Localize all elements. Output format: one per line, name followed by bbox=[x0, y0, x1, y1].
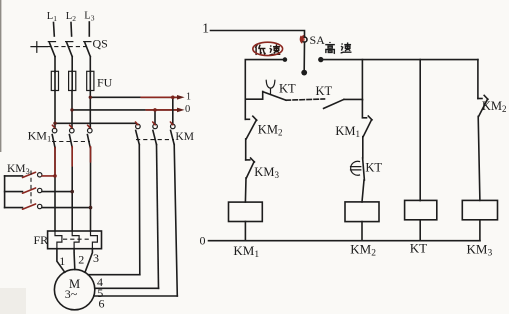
contact KT1 fixed tick bbox=[262, 92, 264, 100]
contactor KM3 left rail bbox=[4, 176, 6, 208]
contactor KM pole 2 bbox=[153, 124, 158, 129]
wire bottom rail bbox=[209, 240, 481, 242]
svg-text:KT: KT bbox=[279, 81, 296, 95]
junction dot stub2 bbox=[153, 108, 157, 112]
svg-text:1: 1 bbox=[186, 91, 191, 102]
LEFT DIAGRAM bbox=[5, 10, 194, 310]
contactor KM3 row 3 connector bbox=[42, 207, 91, 209]
contactor KM3 row 3 stub bbox=[5, 207, 23, 209]
wire low speed branch to left rail bbox=[245, 60, 285, 120]
wire KM pole3 down bbox=[174, 145, 177, 296]
wire FR to motor 1 bbox=[57, 249, 65, 273]
wire row to middle rail bbox=[344, 98, 363, 100]
wire phase C QS to fuse bbox=[89, 57, 91, 72]
contactor KM3 row 1 circle bbox=[38, 173, 42, 177]
svg-text:0: 0 bbox=[200, 234, 206, 248]
contactor KM3 row 3 blade bbox=[23, 204, 36, 209]
svg-text:1: 1 bbox=[59, 254, 65, 268]
wire KM pole1 down bbox=[138, 145, 141, 275]
contactor KM3 row 2 blade bbox=[23, 188, 36, 193]
contactor KM3 row 1 connector bbox=[42, 175, 55, 177]
relay FR heater 3 bbox=[91, 231, 98, 249]
contact KT1 row wire bbox=[245, 98, 262, 100]
wire left rail to coil bbox=[244, 178, 247, 202]
wire stub to KM pole3 bbox=[172, 97, 174, 123]
wire phase B KM1 to FR bbox=[71, 148, 73, 232]
relay FR heater 2 bbox=[72, 231, 79, 249]
contact KM1 blade bbox=[363, 120, 371, 137]
wire right rail to coil bbox=[478, 116, 480, 200]
svg-text:FR: FR bbox=[34, 233, 49, 247]
fuse FU1 bbox=[54, 71, 56, 91]
svg-text:KT: KT bbox=[365, 160, 382, 174]
contact KT3 blade bbox=[363, 158, 365, 180]
wire high speed rail bbox=[321, 59, 478, 61]
wire phase B fuse to KM1 bbox=[71, 91, 73, 129]
wire phase A QS to fuse bbox=[54, 57, 56, 72]
switch SA pivot circle bbox=[302, 37, 307, 42]
label high speed (gao su) bbox=[325, 42, 351, 53]
svg-text:KT: KT bbox=[316, 84, 333, 98]
svg-text:0: 0 bbox=[185, 104, 190, 115]
switch QS pole 2 blade bbox=[67, 43, 72, 57]
contactor KM3 row 3 circle bbox=[38, 204, 42, 208]
contact KT1 delay symbol bbox=[266, 80, 275, 94]
red tick KM1 pole3 bbox=[88, 125, 90, 128]
junction dot row3 bbox=[89, 206, 93, 210]
junction dot row1 bbox=[53, 174, 57, 178]
contact KM3 jog bbox=[246, 159, 250, 161]
svg-text:2: 2 bbox=[78, 252, 84, 266]
wire L3 stub bbox=[88, 22, 90, 36]
coil KM1 box bbox=[229, 202, 263, 221]
wire tap from L1 to KM pole1 bbox=[55, 122, 136, 124]
contact KM2 jog bbox=[245, 118, 249, 120]
wire left rail mid bbox=[245, 139, 247, 160]
red circle around low speed bbox=[253, 42, 283, 55]
switch QS pole 2 tick bbox=[66, 41, 73, 43]
contact KM2 blade bbox=[246, 120, 256, 139]
contact dot low speed bbox=[283, 57, 288, 62]
contact KT3 delay arc bbox=[351, 161, 360, 175]
contact KM2b jog bbox=[478, 98, 482, 100]
wire phase B QS to fuse bbox=[71, 57, 73, 72]
wire control tap 1 from L3 bbox=[90, 96, 177, 98]
wire FR to motor 2 bbox=[73, 249, 76, 270]
junction dot row2 bbox=[70, 190, 74, 194]
wire L1 stub bbox=[53, 23, 56, 37]
switch QS pole 3 tick bbox=[84, 41, 91, 43]
red tick KM1 pole2 bbox=[70, 125, 72, 128]
contactor KM3 row 1 blade bbox=[23, 172, 36, 177]
contact KM2b blade bbox=[479, 99, 488, 116]
contact KM3 blade bbox=[246, 162, 254, 178]
wire drop to middle branch bbox=[361, 60, 363, 100]
svg-text:QS: QS bbox=[93, 37, 108, 51]
svg-text:1: 1 bbox=[202, 20, 209, 35]
wire drop to KT coil branch bbox=[419, 60, 421, 201]
contactor KM1 pole 2 bbox=[70, 128, 75, 133]
wire control tap 0 from L2 bbox=[72, 109, 177, 111]
svg-text:FU: FU bbox=[97, 76, 113, 90]
contactor KM3 row 2 connector bbox=[42, 191, 72, 193]
junction dot L1 tap bbox=[53, 122, 56, 125]
svg-text:3~: 3~ bbox=[65, 287, 78, 301]
contactor KM3 row 2 circle bbox=[38, 188, 42, 192]
switch QS pole 3 blade bbox=[85, 43, 90, 57]
red overdraw phase C bbox=[90, 147, 92, 163]
junction dot L2 tap bbox=[70, 108, 73, 111]
coil KM2 box bbox=[345, 202, 379, 222]
wire phase C KM1 to FR bbox=[90, 148, 92, 232]
wire stub to KM pole2 bbox=[154, 110, 156, 124]
contactor KM pole 3 bbox=[171, 124, 176, 129]
red overdraw phase B bbox=[71, 147, 73, 167]
wire coil KM3 to bottom rail bbox=[479, 220, 481, 241]
wire middle rail bbox=[362, 137, 364, 158]
contactor KM1 pole 3 bbox=[88, 128, 93, 133]
RIGHT DIAGRAM bbox=[200, 20, 507, 259]
svg-text:KT: KT bbox=[410, 241, 427, 256]
motor M circle bbox=[54, 269, 94, 309]
wire phase C fuse to KM1 bbox=[89, 91, 91, 129]
switch QS linkage bbox=[47, 46, 86, 48]
contactor KM pole 1 bbox=[136, 124, 141, 129]
wire phase A fuse to KM1 bbox=[54, 91, 56, 129]
junction dot stub3 bbox=[171, 96, 175, 100]
svg-text:6: 6 bbox=[99, 297, 105, 311]
switch QS pole 1 blade bbox=[50, 43, 56, 57]
wire phase A KM1 to FR bbox=[54, 148, 56, 232]
contact KM1 tick bbox=[368, 116, 372, 120]
wire top rail bbox=[211, 31, 305, 38]
red tick KM pole1 bbox=[136, 122, 139, 125]
red tick KM1 pole1 bbox=[52, 125, 54, 128]
contact KM1 jog bbox=[362, 100, 366, 118]
wire motor terminal 4 bbox=[88, 274, 140, 276]
wire FR to motor 3 bbox=[85, 249, 92, 273]
contact KT2 blade bbox=[324, 99, 344, 108]
wire motor terminal 6 bbox=[94, 295, 178, 297]
contact dot high speed bbox=[318, 57, 323, 62]
coil KM3 box bbox=[462, 200, 497, 219]
svg-text:KM: KM bbox=[175, 131, 194, 143]
relay FR box bbox=[48, 231, 102, 249]
wire L2 stub bbox=[70, 23, 73, 37]
red overdraw phase A bbox=[54, 148, 56, 177]
svg-text:3: 3 bbox=[93, 251, 99, 265]
red mark at SA bbox=[300, 36, 303, 43]
wire coil KM2 to bottom rail bbox=[361, 222, 363, 241]
coil KT box bbox=[405, 200, 437, 219]
contactor KM1 linkage bbox=[52, 141, 90, 143]
fuse FU3 bbox=[89, 71, 91, 91]
red tick KM pole2 bbox=[153, 122, 156, 125]
switch SA lever dot bbox=[301, 70, 307, 76]
wire middle rail to coil bbox=[362, 180, 364, 202]
switch QS pole 1 tick bbox=[48, 41, 55, 43]
scan edge shadow bbox=[0, 0, 1, 152]
label low speed (di su) bbox=[255, 44, 280, 55]
fuse FU2 bbox=[71, 71, 73, 91]
switch QS handle bbox=[31, 46, 47, 48]
wire coil KM1 to bottom rail bbox=[244, 222, 246, 241]
wire drop to KM3 coil branch bbox=[477, 60, 479, 99]
contact KM3 tick bbox=[251, 158, 255, 162]
wire KM pole2 down bbox=[157, 145, 159, 289]
contactor KM1 pole 1 bbox=[52, 128, 57, 133]
relay FR heater 1 bbox=[55, 231, 62, 249]
wire coil KT to bottom rail bbox=[419, 220, 421, 241]
contactor KM3 row 1 stub bbox=[5, 175, 23, 177]
arrow to node 0 bbox=[177, 108, 185, 113]
relay FR linkage bbox=[63, 238, 89, 240]
contact KM2b tick bbox=[484, 95, 488, 99]
contact KT1 blade bbox=[263, 92, 286, 100]
switch SA lever bbox=[303, 42, 305, 70]
wire row middle dashed bbox=[286, 99, 325, 100]
red tick KM pole3 bbox=[170, 122, 173, 125]
contact KM2 tick bbox=[253, 116, 257, 120]
contactor KM linkage bbox=[136, 139, 174, 141]
contactor KM3 linkage bbox=[30, 171, 32, 207]
arrow to node 1 bbox=[177, 95, 185, 100]
junction dot L3 tap bbox=[89, 96, 92, 99]
contactor KM3 row 2 stub bbox=[5, 191, 23, 193]
svg-text:SA: SA bbox=[310, 33, 326, 47]
wire motor terminal 5 bbox=[95, 287, 159, 289]
